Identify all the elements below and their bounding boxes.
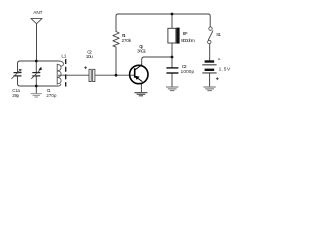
- svg-text:800ohm: 800ohm: [181, 38, 195, 44]
- svg-text:ANT: ANT: [33, 10, 42, 16]
- svg-text:3AG1: 3AG1: [137, 49, 147, 55]
- svg-text:270k: 270k: [122, 38, 132, 44]
- svg-text:S1: S1: [216, 32, 221, 38]
- svg-text:1.5V: 1.5V: [219, 67, 231, 73]
- svg-text:L1: L1: [61, 54, 66, 60]
- svg-text:EP: EP: [183, 31, 188, 37]
- svg-text:270p: 270p: [46, 93, 57, 98]
- svg-text:C1a: C1a: [12, 88, 20, 93]
- svg-text:1000p: 1000p: [181, 69, 195, 74]
- svg-text:29p: 29p: [12, 93, 19, 98]
- svg-text:C1: C1: [47, 88, 52, 93]
- svg-text:10u: 10u: [86, 54, 93, 60]
